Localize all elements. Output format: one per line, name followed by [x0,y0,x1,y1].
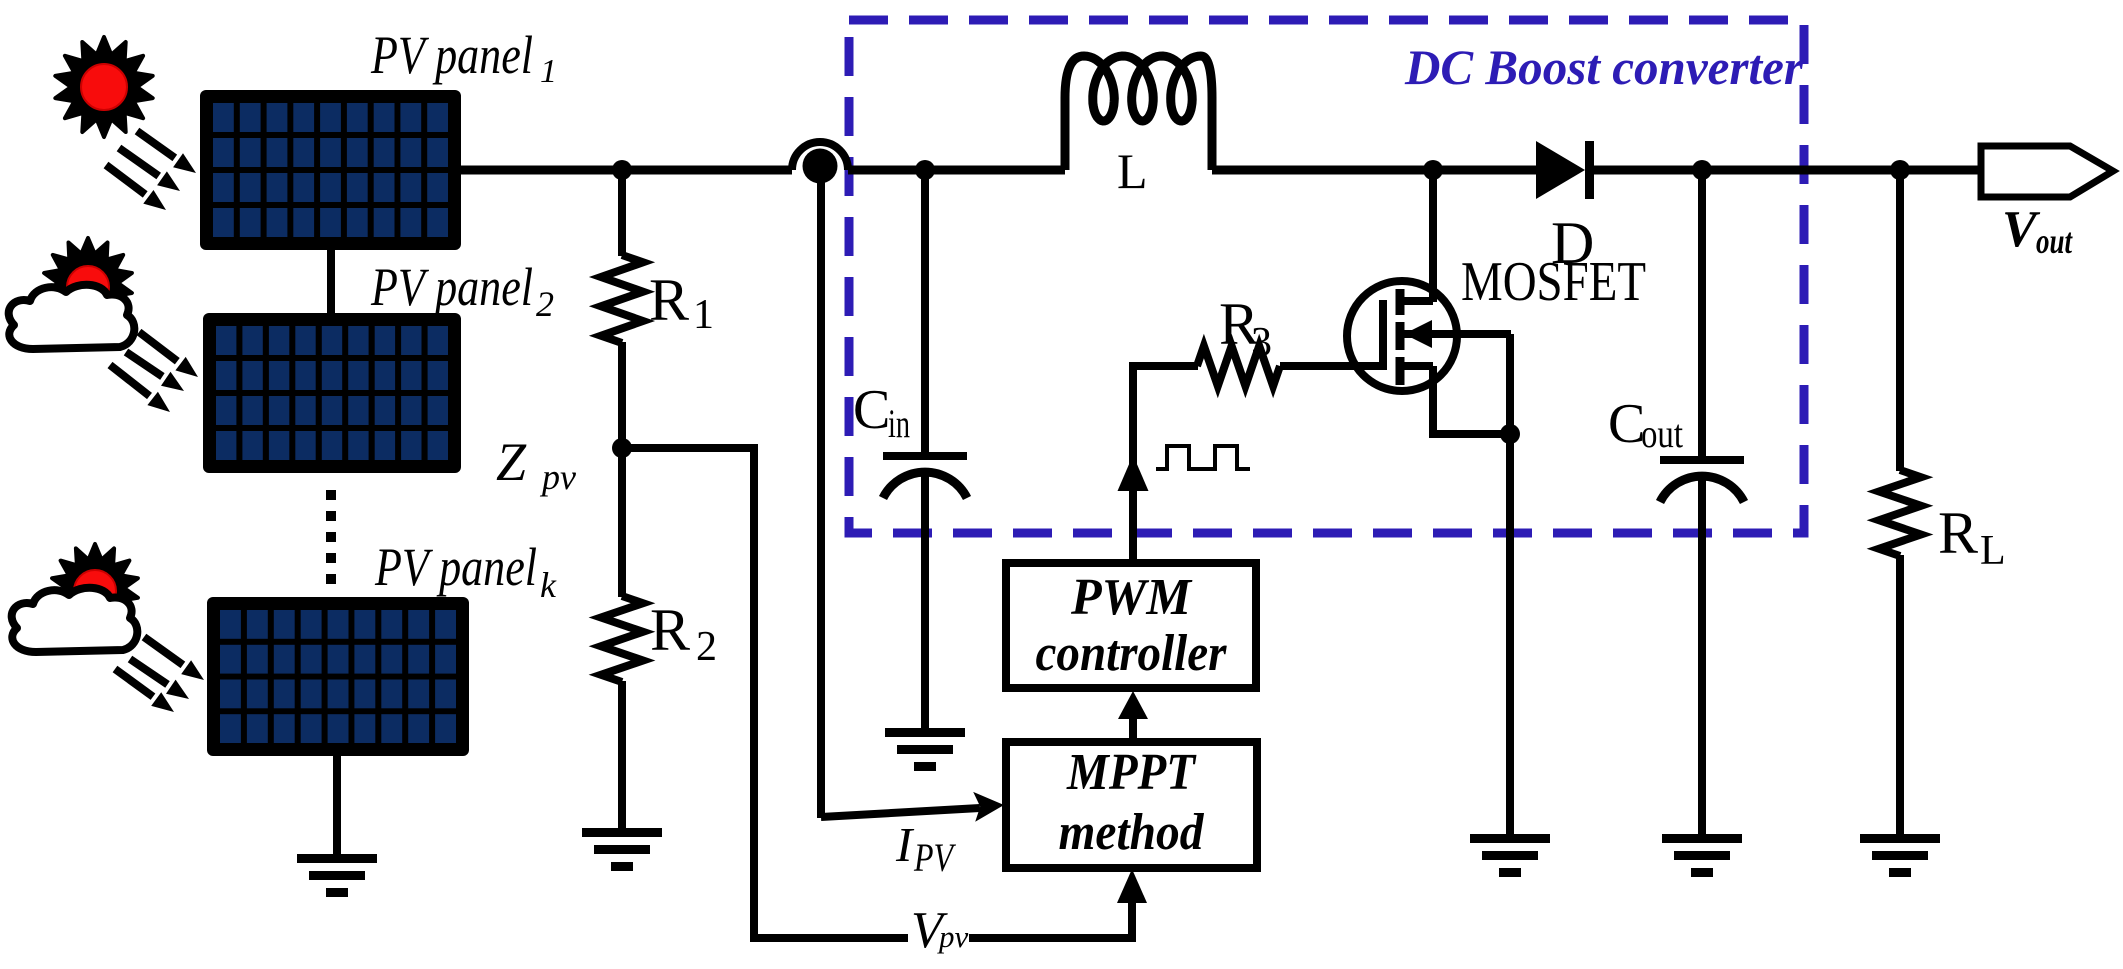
svg-text:out: out [1641,411,1683,456]
resistor R1 [601,255,643,343]
wire Vpv segment to MPPT [969,888,1132,938]
wire bend to R3 [1129,362,1198,370]
MOSFET source arrow [1404,320,1511,348]
wire inductor to diode [1212,166,1536,175]
svg-text:R: R [1938,500,1978,566]
capacitor Cin [883,456,967,498]
svg-text:controller: controller [1036,625,1228,682]
MOSFET source bar [1400,362,1433,370]
wire bus to R1 [618,170,626,256]
label R3 [1219,291,1272,366]
svg-text:PV panel: PV panel [370,257,533,317]
svg-text:PV: PV [913,835,956,880]
svg-text:2: 2 [696,624,717,670]
wire RL to ground [1896,555,1904,836]
PV panel k [207,597,469,756]
wire Cout to ground [1698,478,1706,836]
svg-text:pv: pv [937,919,969,954]
node junction at MOSFET drain [1423,160,1443,180]
label PV panelk [374,537,557,605]
svg-text:k: k [540,565,557,605]
wire R1 to R2 [618,342,626,597]
wire PWM to R3 with arrow [1118,366,1149,563]
svg-text:DC Boost converter: DC Boost converter [1404,39,1804,95]
MPPT method box [1006,742,1257,868]
svg-text:out: out [2036,221,2073,261]
resistor RL [1879,470,1921,556]
ground below Cout [1662,834,1742,877]
MOSFET drain bar [1400,297,1433,305]
resistor R2 [601,596,643,682]
dotted continuation between panel2 and panelk [326,490,336,592]
wire bus to RL [1896,170,1904,471]
arrow Vpv into MPPT [1117,869,1147,930]
node junction at RL tap [1890,160,1910,180]
svg-text:I: I [895,817,915,872]
diode D [1536,141,1594,199]
irradiance arrows for PV panel 2 [110,332,198,412]
label Ipv [895,817,957,880]
label R1 [649,267,714,338]
node junction R1-R2 (Zpv node) [612,438,632,458]
ground below R2 [582,828,662,871]
svg-text:PV panel: PV panel [370,25,533,85]
node junction at Cin tap [915,160,935,180]
node junction at R1 tap [612,160,632,180]
svg-text:method: method [1059,804,1205,861]
ground below Cin [885,728,965,771]
wire Zpv node to Vpv drop [622,448,908,938]
ground below RL [1860,834,1940,877]
svg-text:1: 1 [693,292,714,338]
label Cin [853,379,910,446]
svg-text:PWM: PWM [1070,569,1193,626]
svg-text:Z: Z [496,432,527,492]
current sensor tap dot [803,149,838,184]
label PV panel2 [370,257,554,324]
label Vpv [911,902,969,959]
inductor L [1065,56,1212,170]
arrow Ipv into MPPT [821,792,1004,822]
ground below PV panel k [297,854,377,897]
sun 1 (full sun icon) [55,37,152,137]
arrow MPPT to PWM [1118,691,1148,744]
PWM controller box [1006,563,1256,688]
label MPPT method [1059,744,1205,861]
sun 3 with cloud [12,544,138,652]
svg-text:in: in [888,401,910,446]
svg-text:3: 3 [1251,320,1272,366]
svg-text:R: R [649,267,689,333]
svg-text:1: 1 [540,53,557,90]
sun 2 with cloud [9,238,135,349]
MOSFET Q1 body circle [1347,281,1457,391]
wire panelk to ground [333,756,341,856]
svg-text:MOSFET: MOSFET [1461,251,1646,313]
wire bus sensor to inductor [848,166,1065,175]
wire source loop [1433,334,1510,434]
node junction at Cout tap [1692,160,1712,180]
wire R3 to MOSFET gate [1280,362,1386,370]
label R2 [650,597,717,670]
resistor R3 [1197,346,1280,386]
PV panel 2 [203,313,461,473]
MOSFET channel bar (dashed) [1396,289,1405,385]
capacitor Cout [1660,460,1744,502]
svg-text:2: 2 [536,284,554,324]
irradiance arrows for PV panel 1 [106,131,196,210]
wire panel1 to panel2 [327,250,335,315]
label RL [1938,500,2006,574]
wire bus to Cout [1698,170,1706,457]
wire drain to bus [1429,170,1437,302]
svg-text:R: R [650,597,690,663]
wire diode to Vout [1594,166,1984,175]
ground below MOSFET source [1470,834,1550,877]
label PV panel1 [370,25,557,90]
label PWM controller [1036,569,1228,682]
DC Boost converter dashed box [849,20,1804,533]
wire Cin to ground [921,474,929,730]
irradiance arrows for PV panel k [115,637,204,712]
svg-text:L: L [1117,143,1148,199]
wire PV output bus (left of sensor) [461,166,792,175]
current sensor hop arc [792,142,848,170]
svg-text:pv: pv [539,457,576,497]
node junction source [1500,424,1520,444]
wire bus to Cin [921,170,929,453]
label Vout [2002,201,2073,261]
svg-text:C: C [1608,393,1645,455]
svg-text:L: L [1980,528,2006,574]
PV panel 1 [200,90,461,250]
square wave symbol [1156,446,1250,469]
svg-text:PV panel: PV panel [374,537,537,597]
label Cout [1608,393,1683,456]
wire current sensor down [817,180,825,818]
label Zpv [496,432,576,497]
wire R2 to ground [618,681,626,830]
svg-text:MPPT: MPPT [1066,744,1197,801]
svg-text:C: C [853,379,890,441]
MOSFET gate bar [1379,300,1387,370]
wire source to ground [1506,434,1514,836]
Vout output arrow symbol [1981,146,2113,197]
